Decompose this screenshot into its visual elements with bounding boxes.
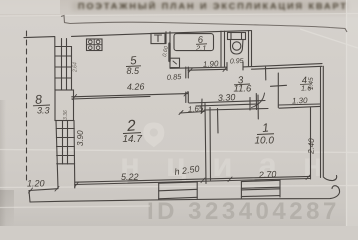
svg-text:h 2.50: h 2.50 <box>174 164 200 177</box>
svg-text:3.30: 3.30 <box>218 92 236 103</box>
svg-text:8.5: 8.5 <box>127 66 141 76</box>
svg-text:10.0: 10.0 <box>255 136 275 147</box>
svg-text:0.95: 0.95 <box>230 58 244 66</box>
svg-text:4.26: 4.26 <box>127 81 145 92</box>
svg-text:3.90: 3.90 <box>76 130 85 146</box>
svg-text:1.30: 1.30 <box>292 96 308 106</box>
svg-text:1.45: 1.45 <box>308 77 315 90</box>
svg-text:11.6: 11.6 <box>234 84 253 95</box>
svg-text:5.22: 5.22 <box>121 172 139 182</box>
svg-text:3.36: 3.36 <box>63 110 69 120</box>
svg-text:2: 2 <box>125 117 136 135</box>
svg-text:2.1: 2.1 <box>195 44 206 53</box>
svg-text:0.85: 0.85 <box>167 72 183 82</box>
svg-text:14.7: 14.7 <box>123 134 143 145</box>
svg-text:1: 1 <box>262 120 270 135</box>
svg-text:3.3: 3.3 <box>37 106 50 116</box>
svg-text:1.90: 1.90 <box>203 59 220 69</box>
svg-text:1.20: 1.20 <box>27 179 45 189</box>
svg-text:2.64: 2.64 <box>73 62 79 73</box>
svg-text:2.70: 2.70 <box>258 169 277 180</box>
svg-text:1.65: 1.65 <box>188 104 205 114</box>
svg-text:2.40: 2.40 <box>306 138 316 155</box>
